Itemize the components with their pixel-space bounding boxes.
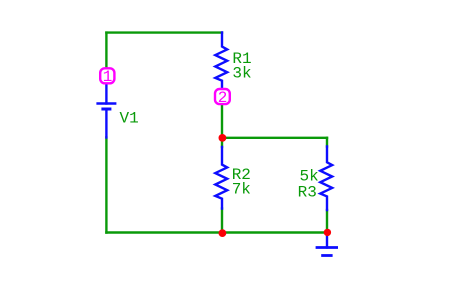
svg-text:3k: 3k bbox=[232, 65, 251, 83]
svg-text:V1: V1 bbox=[120, 109, 139, 127]
svg-text:7k: 7k bbox=[232, 180, 251, 198]
svg-text:1: 1 bbox=[103, 68, 113, 86]
svg-text:R3: R3 bbox=[298, 184, 317, 202]
svg-text:2: 2 bbox=[218, 89, 228, 107]
